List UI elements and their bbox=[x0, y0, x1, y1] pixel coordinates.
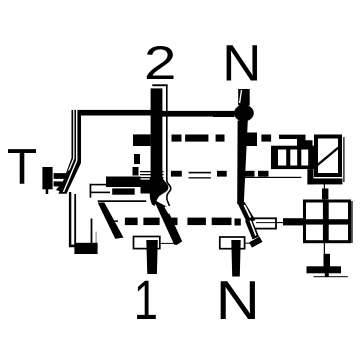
svg-text:1: 1 bbox=[134, 268, 158, 331]
svg-text:T: T bbox=[7, 139, 37, 195]
svg-text:N: N bbox=[222, 35, 261, 92]
svg-text:N: N bbox=[216, 270, 260, 331]
svg-text:2: 2 bbox=[144, 37, 177, 90]
